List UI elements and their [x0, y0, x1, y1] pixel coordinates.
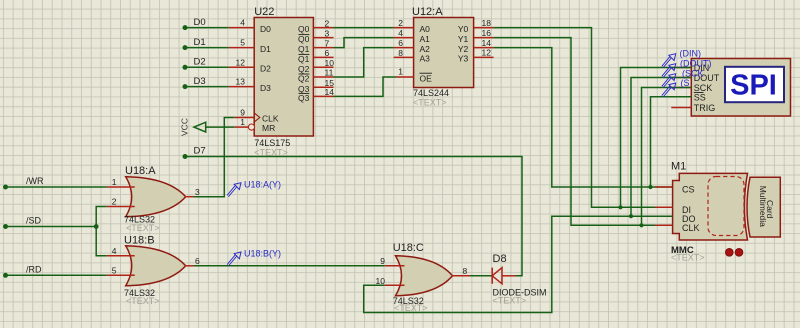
svg-text:Card: Card [765, 200, 775, 219]
wire VCC to U22 MR [206, 126, 235, 128]
svg-text:Y1: Y1 [458, 34, 469, 44]
svg-text:U18:B: U18:B [124, 234, 155, 246]
svg-text:Q0: Q0 [298, 24, 310, 34]
svg-text:1: 1 [398, 67, 403, 77]
net arrow (DOUT) [669, 64, 676, 71]
U18:A output stub [185, 196, 194, 198]
wire /WR to U18:A pin1 [6, 186, 107, 188]
svg-text:SS: SS [694, 92, 706, 102]
U18:A pin 2 stub [107, 206, 135, 208]
svg-text:/WR: /WR [26, 176, 44, 186]
svg-text:MR: MR [262, 123, 275, 133]
svg-text:9: 9 [240, 108, 245, 118]
or-gate U18:A body [126, 177, 186, 217]
wire Q2-bar to A2 [334, 48, 394, 77]
svg-text:U18:A: U18:A [125, 165, 156, 177]
svg-text:(S: (S [681, 78, 690, 88]
wire D7 to diode anode [185, 157, 522, 276]
U12 pin 16 (Y1) stub [474, 37, 494, 39]
svg-text:5: 5 [112, 265, 117, 275]
junction SCK-MMC CLK [639, 223, 643, 227]
junction DIN-MMC DI [618, 205, 622, 209]
node D3 terminal dot [183, 84, 188, 89]
diode D8 cathode bar [491, 268, 493, 284]
SPI pin DIN stub [671, 67, 691, 69]
wire SS vertical [651, 97, 692, 187]
svg-text:D3: D3 [260, 83, 271, 93]
svg-text:2: 2 [325, 18, 330, 28]
wire net SS: Y2 to MMC CS [494, 48, 673, 187]
U18:B output stub [185, 265, 194, 267]
svg-text:Q1: Q1 [298, 54, 310, 64]
MMC M1 socket body [673, 173, 748, 240]
SPI logo box [725, 67, 784, 102]
wire Q1 to A1 [334, 38, 394, 48]
svg-text:(DOUT): (DOUT) [680, 59, 712, 69]
U22 pin 10 (Q2) stub [313, 66, 333, 68]
M1 pin CS stub [655, 186, 673, 188]
svg-text:<TEXT>: <TEXT> [413, 98, 447, 108]
MMC dashed card outline [708, 177, 744, 236]
svg-text:4: 4 [240, 18, 245, 28]
U22 pin 1 (MR) stub [234, 126, 248, 128]
svg-text:12: 12 [482, 48, 492, 58]
svg-text:16: 16 [482, 28, 492, 38]
svg-text:TRIG: TRIG [694, 103, 716, 113]
svg-text:<TEXT>: <TEXT> [394, 303, 428, 313]
svg-text:SPI: SPI [730, 70, 777, 102]
svg-text:18: 18 [482, 18, 492, 28]
wire DIN vertical [621, 68, 692, 208]
U22 pin 6 (Q1-bar) stub [313, 56, 333, 58]
U12 pin 14 (Y2) stub [474, 47, 494, 49]
SPI pin TRIG stub [671, 107, 691, 109]
svg-text:6: 6 [398, 38, 403, 48]
svg-text:7: 7 [325, 38, 330, 48]
svg-text:13: 13 [236, 77, 246, 87]
svg-text:<TEXT>: <TEXT> [493, 295, 527, 305]
net arrow (DIN) [669, 54, 676, 61]
U18:C pin 10 stub [385, 284, 405, 286]
svg-text:Y3: Y3 [458, 54, 469, 64]
connector SPI body [691, 59, 790, 117]
U22 pin 12 (D2) stub [229, 66, 255, 68]
svg-text:9: 9 [380, 256, 385, 266]
svg-text:6: 6 [195, 256, 200, 266]
svg-text:8: 8 [463, 266, 468, 276]
U22 pin 5 (D1) stub [229, 47, 255, 49]
wire D1 to U22 [185, 47, 229, 49]
MMC card shape [747, 177, 780, 237]
svg-text:D3: D3 [194, 76, 206, 87]
wire net DIN: Y0 to MMC DI [494, 28, 673, 208]
U18:C pin 9 stub [385, 265, 405, 267]
SPI pin SS stub [671, 96, 691, 98]
svg-text:M1: M1 [671, 161, 686, 173]
svg-text:A1: A1 [420, 34, 431, 44]
U12 pin 6 (A2) stub [394, 47, 414, 49]
U18:B pin 4 stub [107, 255, 135, 257]
wire /SD branch [96, 207, 107, 256]
svg-text:U12:A: U12:A [412, 6, 443, 18]
svg-text:A3: A3 [420, 54, 431, 64]
U12 pin 1 (OE) stub [396, 76, 414, 78]
svg-text:Y0: Y0 [458, 24, 469, 34]
MMC write-protect dot 1 [726, 249, 734, 257]
svg-text:/RD: /RD [26, 265, 42, 275]
U18:C output stub [452, 275, 471, 277]
or-gate U18:C body [396, 256, 453, 296]
svg-text:1: 1 [240, 117, 245, 127]
svg-text:2: 2 [398, 18, 403, 28]
wire D3 to U22 [185, 86, 229, 88]
svg-text:A2: A2 [420, 44, 431, 54]
diode D8 triangle [492, 268, 502, 284]
node /SD terminal dot [3, 224, 8, 229]
SPI pin DOUT stub [671, 77, 691, 79]
node /WR terminal dot [3, 185, 8, 190]
wire D2 to U22 [185, 66, 229, 68]
net arrow (SS) [669, 83, 676, 90]
wire D0 to U22 [185, 27, 229, 29]
svg-text:D2: D2 [194, 57, 206, 68]
svg-text:CS: CS [682, 185, 695, 195]
svg-text:2: 2 [112, 197, 117, 207]
power VCC arrow [194, 122, 206, 132]
svg-text:D8: D8 [493, 253, 507, 265]
svg-text:3: 3 [195, 187, 200, 197]
svg-text:U18:A(Y): U18:A(Y) [244, 179, 281, 189]
U22 pin 7 (Q1) stub [313, 47, 333, 49]
wire U18:C out to D8 cathode [470, 275, 492, 277]
svg-text:<TEXT>: <TEXT> [671, 252, 705, 262]
wire U18:B out to U18:C pin9 [194, 265, 385, 267]
node D1 terminal dot [183, 45, 188, 50]
svg-text:D7: D7 [194, 146, 206, 157]
wire net SCK: Y1 to MMC CLK [494, 38, 673, 226]
wire DOUT vertical [631, 78, 691, 217]
svg-text:U22: U22 [254, 6, 274, 18]
svg-text:Q3: Q3 [298, 93, 310, 103]
M1 pin DI stub [655, 206, 673, 208]
svg-text:D0: D0 [260, 24, 271, 34]
svg-text:1: 1 [112, 177, 117, 187]
U22 pin 9 (CLK) stub [234, 117, 254, 119]
U12 pin 12 (Y3) stub [474, 56, 494, 58]
svg-text:4: 4 [398, 28, 403, 38]
svg-text:D1: D1 [260, 44, 271, 54]
svg-text:VCC: VCC [180, 118, 190, 136]
svg-text:<TEXT>: <TEXT> [126, 223, 160, 233]
U22 CLK clock wedge [255, 113, 260, 121]
node D0 terminal dot [183, 25, 188, 30]
wire SCK vertical [642, 88, 692, 226]
net arrow U18:A(Y) [234, 183, 241, 190]
svg-text:6: 6 [325, 48, 330, 58]
U12 pin 2 (A0) stub [394, 27, 414, 29]
IC U12:A 74LS244 body [414, 18, 474, 88]
svg-text:Q1: Q1 [298, 44, 310, 54]
U12 pin 18 (Y0) stub [474, 27, 494, 29]
wire /SD trunk [6, 226, 97, 228]
svg-text:10: 10 [325, 58, 335, 68]
svg-text:/SD: /SD [26, 216, 42, 226]
net arrow (SCK) [669, 74, 676, 81]
svg-text:CLK: CLK [262, 113, 279, 123]
M1 pin DO stub [655, 215, 673, 217]
svg-text:3: 3 [325, 28, 330, 38]
U22 MR inversion bubble [248, 124, 254, 130]
svg-text:14: 14 [482, 38, 492, 48]
U18:A pin 1 stub [107, 186, 135, 188]
M1 pin CLK stub [655, 224, 673, 226]
U22 pin 3 (Q0-bar) stub [313, 37, 333, 39]
node D2 terminal dot [183, 65, 188, 70]
node D7 terminal dot [183, 154, 188, 159]
svg-text:10: 10 [376, 276, 386, 286]
U22 pin 2 (Q0) stub [313, 27, 333, 29]
svg-text:8: 8 [398, 48, 403, 58]
svg-text:D1: D1 [194, 37, 206, 48]
U22 pin 13 (D3) stub [229, 86, 255, 88]
node /RD terminal dot [3, 273, 8, 278]
junction DOUT-MMC DO [629, 214, 633, 218]
diode D8 anode pin [502, 275, 516, 277]
U22 pin 15 (Q3) stub [313, 86, 333, 88]
U12 pin 4 (A1) stub [394, 37, 414, 39]
wire MMC DO to U18:C pin10 [364, 216, 673, 312]
U18:B pin 5 stub [107, 274, 135, 276]
svg-text:U18:B(Y): U18:B(Y) [244, 249, 281, 259]
svg-text:A0: A0 [420, 24, 431, 34]
IC U22 74LS175 body [254, 18, 313, 137]
svg-text:4: 4 [112, 246, 117, 256]
U22 pin 14 (Q3-bar) stub [313, 95, 333, 97]
or-gate U18:B body [126, 246, 186, 286]
wire U18:A out to U22 CLK [194, 118, 235, 197]
svg-text:Y2: Y2 [458, 44, 469, 54]
junction SS-MMC CS [648, 185, 652, 189]
svg-text:Q0: Q0 [298, 34, 310, 44]
svg-text:(DIN): (DIN) [680, 49, 702, 59]
net arrow U18:B(Y) [234, 252, 241, 259]
svg-text:14: 14 [325, 87, 335, 97]
wire Q0 to A0 [334, 27, 394, 29]
wire Q3-bar to OE [334, 77, 397, 96]
svg-text:Q2: Q2 [298, 64, 310, 74]
svg-text:D0: D0 [194, 17, 206, 28]
svg-text:CLK: CLK [682, 223, 700, 233]
svg-text:12: 12 [236, 57, 246, 67]
U22 pin 4 (D0) stub [229, 27, 255, 29]
svg-text:<TEXT>: <TEXT> [126, 296, 160, 306]
svg-text:OE: OE [420, 73, 433, 83]
U12 pin 8 (A3) stub [394, 56, 414, 58]
svg-text:5: 5 [240, 38, 245, 48]
svg-text:Q2: Q2 [298, 74, 310, 84]
svg-text:U18:C: U18:C [393, 242, 424, 254]
SPI pin SCK stub [671, 87, 691, 89]
svg-text:D2: D2 [260, 64, 271, 74]
U22 pin 11 (Q2-bar) stub [313, 76, 333, 78]
junction /SD [94, 224, 99, 229]
MMC write-protect dot 2 [735, 249, 743, 257]
wire /RD to U18:B pin5 [6, 274, 107, 276]
svg-text:11: 11 [325, 68, 334, 78]
